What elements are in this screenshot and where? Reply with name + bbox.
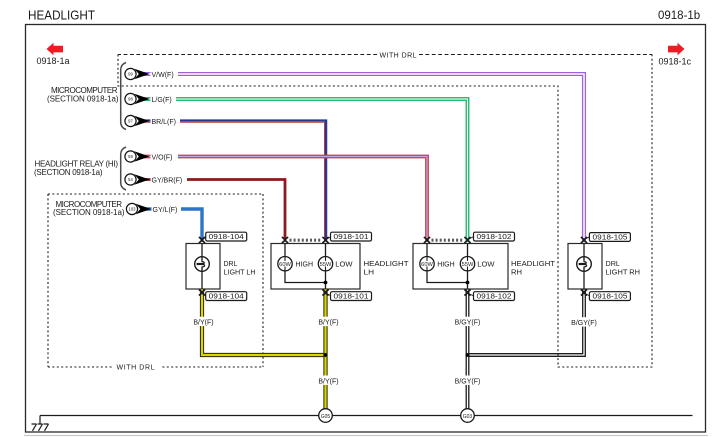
wire L/G(F) <box>143 99 468 242</box>
wire GY/BR(F) <box>143 180 285 242</box>
svg-text:97: 97 <box>128 119 133 124</box>
wire GY/L(F) <box>143 209 202 242</box>
connector 59 (V/O) <box>125 151 178 162</box>
svg-text:G03: G03 <box>463 414 473 420</box>
svg-text:99: 99 <box>128 72 133 77</box>
svg-text:HIGH: HIGH <box>437 259 455 268</box>
svg-text:59: 59 <box>128 154 133 159</box>
leader <box>204 237 208 239</box>
connector 54 (GY/BR) <box>125 174 187 185</box>
pins HEADLIGHT RH top <box>424 237 430 243</box>
bulb LOW LH <box>325 244 327 257</box>
svg-text:RH: RH <box>511 267 522 276</box>
pin DRL RH top <box>581 237 587 243</box>
label 0918-104 top <box>206 232 247 241</box>
svg-text:L/G(F): L/G(F) <box>152 97 172 104</box>
connector 99 (V/W) <box>125 68 178 79</box>
bracket (microcomputer pins) <box>121 63 126 130</box>
internal wires LH <box>285 271 326 289</box>
label HEADLIGHT RELAY (HI) <box>34 160 118 178</box>
lamp DRL LH <box>195 244 210 290</box>
svg-text:GY/L(F): GY/L(F) <box>153 207 178 214</box>
svg-text:V/W(F): V/W(F) <box>152 72 174 79</box>
label MICROCOMPUTER (upper) <box>47 86 119 104</box>
label MICROCOMPUTER (lower) <box>53 200 125 217</box>
svg-text:HEADLIGHT: HEADLIGHT <box>28 8 95 23</box>
svg-text:LH: LH <box>364 267 375 276</box>
svg-text:LIGHT RH: LIGHT RH <box>606 268 641 277</box>
svg-text:0918-1a: 0918-1a <box>37 56 70 66</box>
ground bus <box>40 415 693 417</box>
svg-text:GY/BR(F): GY/BR(F) <box>152 177 183 184</box>
connector 103 (GY/L) <box>126 203 181 214</box>
svg-text:0918-101: 0918-101 <box>334 232 369 241</box>
svg-text:LOW: LOW <box>477 259 494 268</box>
svg-text:0918-104: 0918-104 <box>209 232 244 241</box>
label 0918-105 top <box>589 233 630 242</box>
svg-text:0918-1b: 0918-1b <box>658 10 700 22</box>
label 0918-102 bottom <box>474 292 515 301</box>
wire B/GY(F) from DRL RH <box>469 289 585 356</box>
svg-text:0918-104: 0918-104 <box>209 292 244 301</box>
svg-text:0918-102: 0918-102 <box>477 292 512 301</box>
svg-text:WITH DRL: WITH DRL <box>380 52 417 59</box>
wire V/W(F) <box>143 73 585 242</box>
dashed box WITH DRL (lower-left) <box>48 194 263 367</box>
wire B/Y(F) from HEADLIGHT LH to ground <box>323 289 327 409</box>
svg-text:B/Y(F): B/Y(F) <box>318 378 338 385</box>
bulb HIGH RH <box>426 244 428 257</box>
label 0918-104 bottom <box>206 292 247 301</box>
pin DRL RH bottom <box>581 290 587 296</box>
svg-text:V/O(F): V/O(F) <box>152 154 173 161</box>
label 0918-101 bottom <box>331 292 372 301</box>
HEADLIGHT RH box <box>413 244 508 290</box>
svg-text:0918-105: 0918-105 <box>593 292 628 301</box>
svg-text:55W: 55W <box>462 262 475 268</box>
pins HEADLIGHT LH top <box>282 237 288 243</box>
arrow right red <box>668 43 685 55</box>
label 0918-105 bottom <box>589 292 630 301</box>
bracket (relay pins) <box>121 147 126 190</box>
svg-text:60W: 60W <box>279 262 292 268</box>
connector 98 (L/G) <box>125 93 176 104</box>
wire V/O(F) <box>143 157 427 242</box>
svg-text:(SECTION 0918-1a): (SECTION 0918-1a) <box>47 95 119 104</box>
junction B/GY <box>466 353 470 357</box>
svg-text:B/GY(F): B/GY(F) <box>455 320 481 327</box>
svg-text:B/GY(F): B/GY(F) <box>455 378 481 385</box>
dashed boundary WITH DRL (top strip + right column) <box>118 54 652 56</box>
junction B/Y <box>324 353 328 357</box>
svg-text:(SECTION 0918-1a): (SECTION 0918-1a) <box>53 208 125 217</box>
lamp DRL RH <box>577 244 592 290</box>
svg-text:B/Y(F): B/Y(F) <box>318 320 338 327</box>
pin HEADLIGHT LH bottom <box>322 290 328 296</box>
label 0918-101 top <box>331 232 372 241</box>
svg-text:LOW: LOW <box>335 259 352 268</box>
wire B/GY(F) from HEADLIGHT RH to ground <box>466 289 469 409</box>
labels B/Y(F), B/GY(F) <box>191 317 600 386</box>
svg-text:0918-1c: 0918-1c <box>659 57 692 67</box>
svg-text:54: 54 <box>128 177 133 182</box>
DRL LIGHT RH box <box>568 244 602 290</box>
bulb HIGH LH <box>284 244 286 257</box>
pin HEADLIGHT RH bottom <box>464 290 470 296</box>
svg-text:98: 98 <box>128 97 133 102</box>
svg-text:BR/L(F): BR/L(F) <box>152 119 177 126</box>
svg-text:0918-105: 0918-105 <box>593 233 628 242</box>
svg-text:B/GY(F): B/GY(F) <box>571 320 597 327</box>
svg-text:103: 103 <box>129 207 137 212</box>
arrow left red <box>47 43 64 55</box>
svg-text:0918-102: 0918-102 <box>477 232 512 241</box>
DRL LIGHT LH box <box>186 244 220 290</box>
ground symbol <box>32 416 49 431</box>
label 0918-102 top <box>474 232 515 241</box>
ground G05 <box>319 409 333 423</box>
pin DRL LH bottom <box>199 290 205 296</box>
wire B/Y(F) from DRL LH <box>202 289 326 355</box>
svg-text:LIGHT LH: LIGHT LH <box>224 267 256 276</box>
connector dotted line RH <box>432 239 465 242</box>
page shadow line <box>24 435 708 437</box>
connector 97 (BR/L) <box>125 115 180 126</box>
ground G03 <box>461 409 475 423</box>
svg-text:(SECTION 0918-1a): (SECTION 0918-1a) <box>34 168 103 177</box>
svg-text:B/Y(F): B/Y(F) <box>193 320 213 327</box>
svg-text:G05: G05 <box>321 414 331 420</box>
pin DRL LH top <box>199 237 205 243</box>
svg-text:HIGH: HIGH <box>296 259 314 268</box>
svg-text:55W: 55W <box>320 262 333 268</box>
svg-text:60W: 60W <box>421 262 434 268</box>
internal wires RH <box>427 271 468 289</box>
bulb LOW RH <box>467 244 469 257</box>
svg-text:WITH DRL: WITH DRL <box>117 365 155 372</box>
svg-text:0918-101: 0918-101 <box>334 292 369 301</box>
connector dotted line LH <box>290 239 323 242</box>
HEADLIGHT LH box <box>271 244 360 290</box>
wire BR/L(F) <box>143 122 325 241</box>
